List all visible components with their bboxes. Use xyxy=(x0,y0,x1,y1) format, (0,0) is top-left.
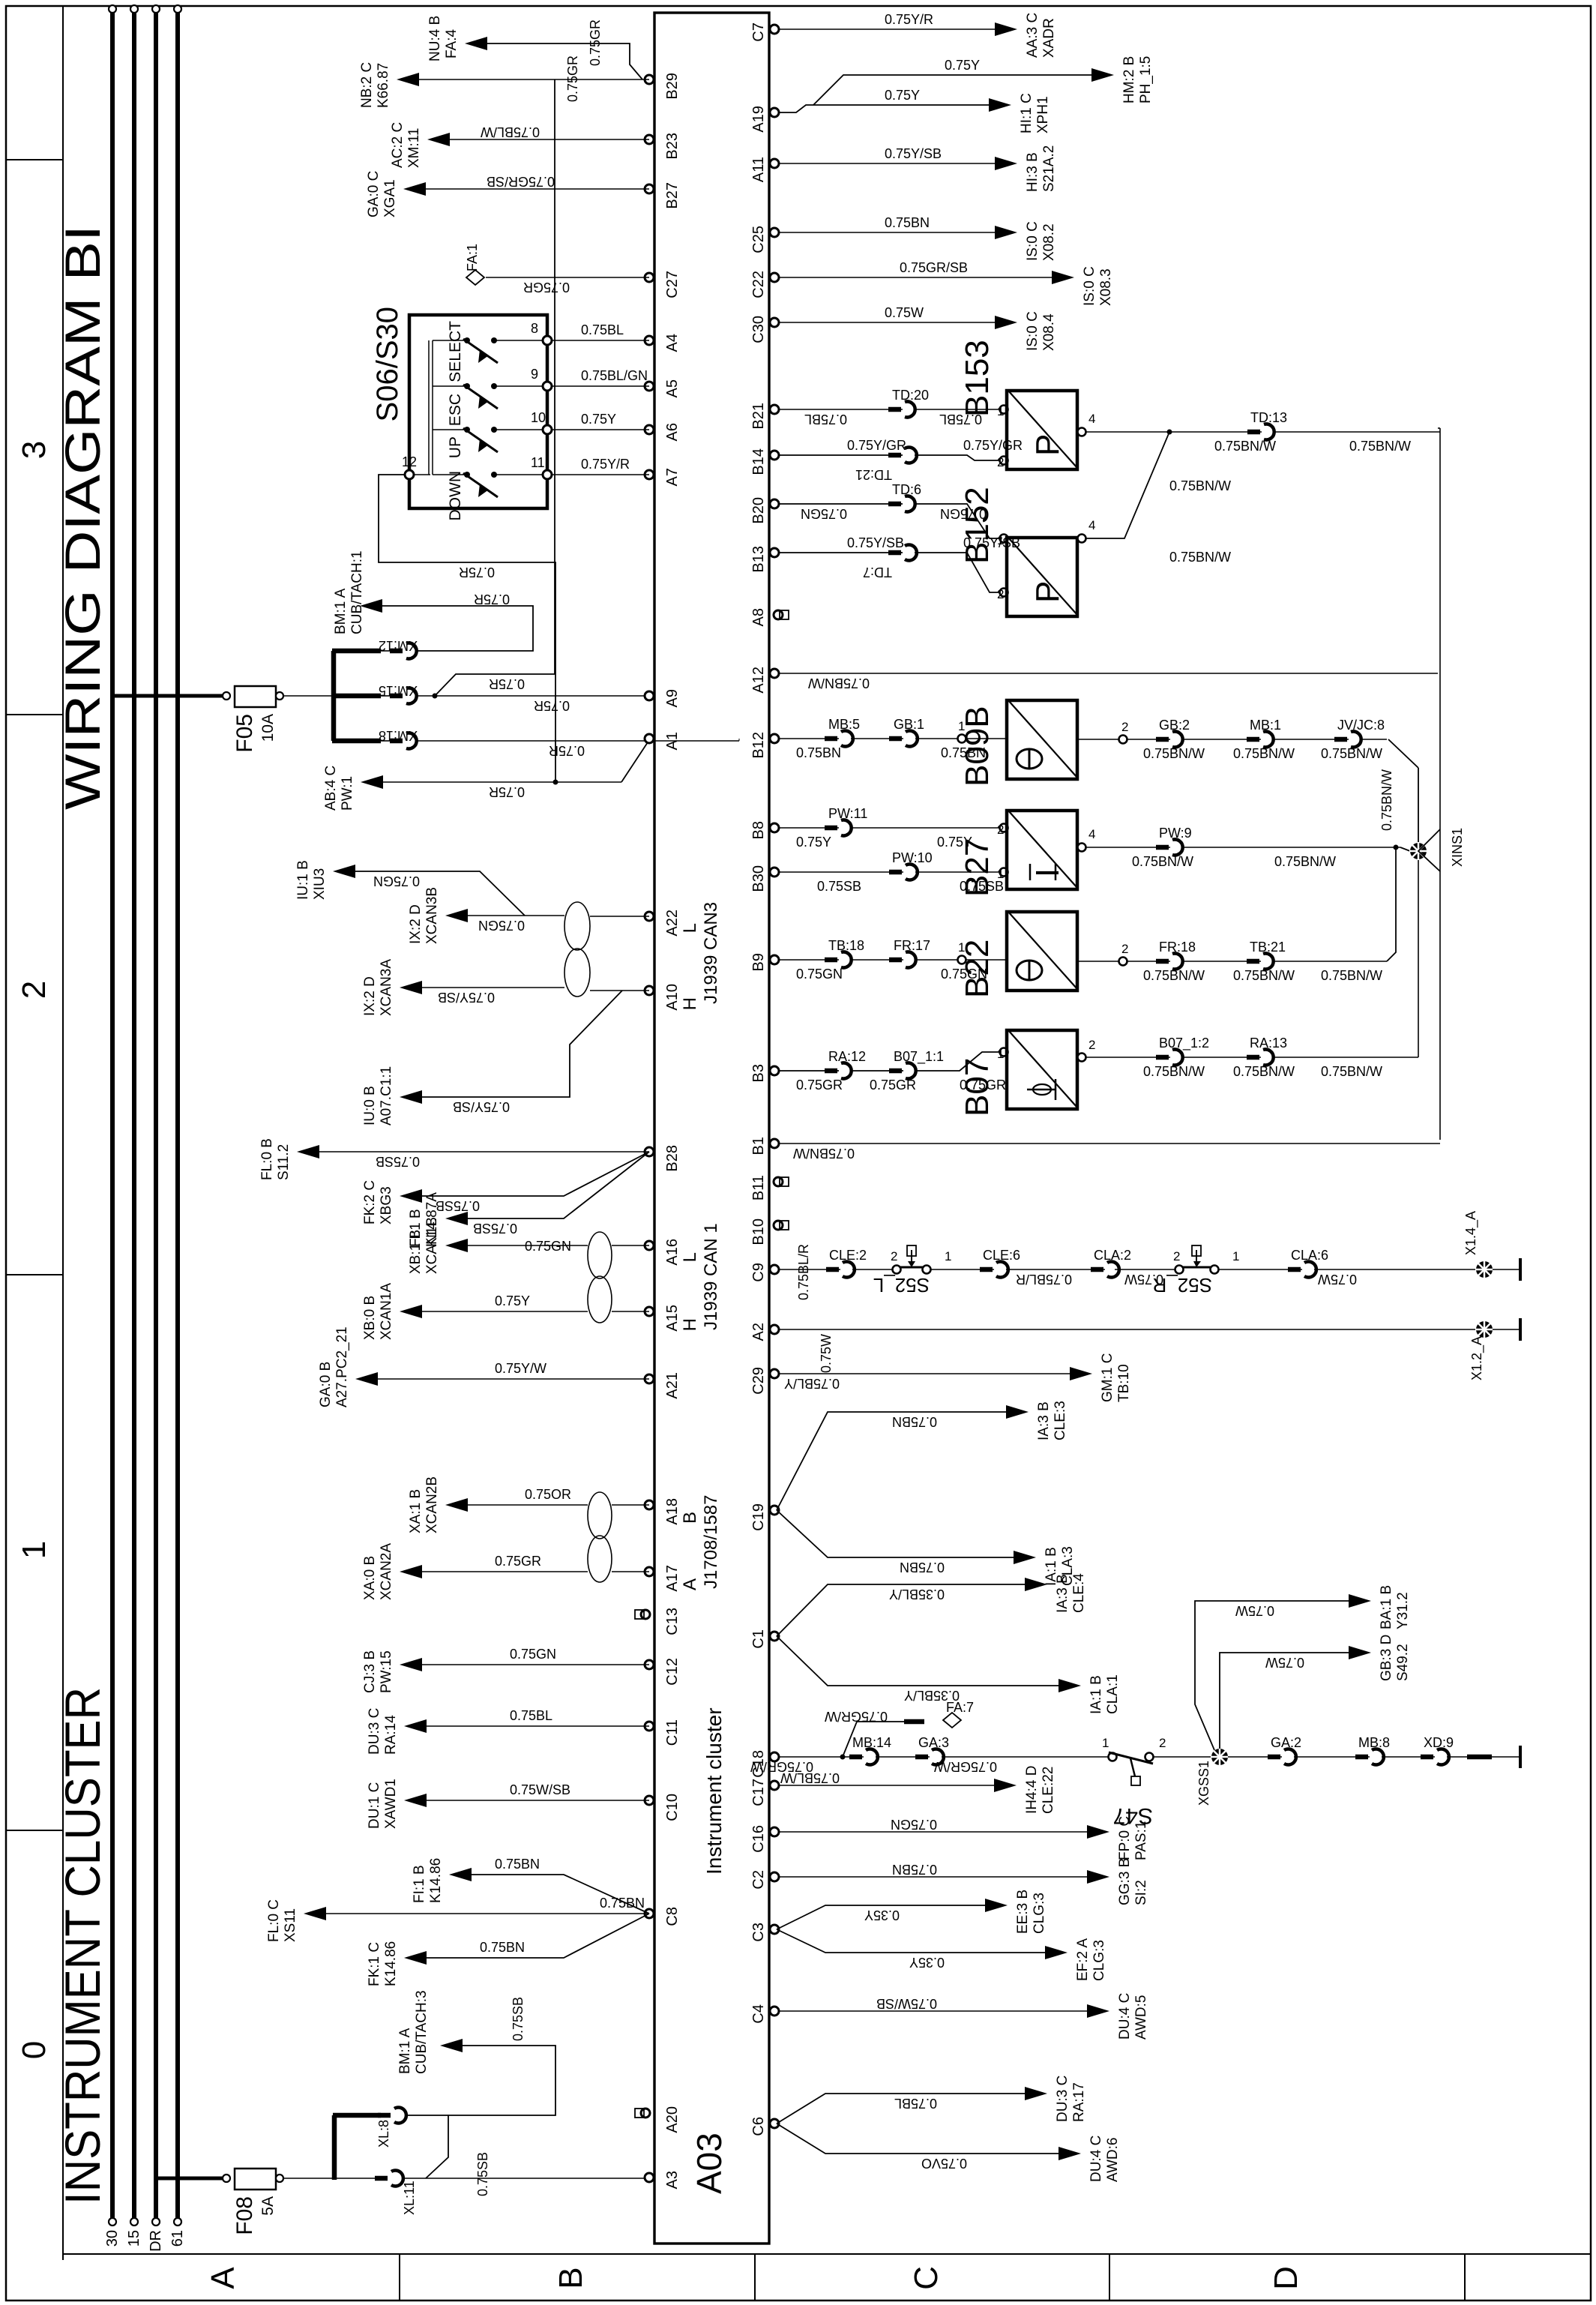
svg-text:1: 1 xyxy=(1232,1249,1239,1263)
svg-text:B11: B11 xyxy=(750,1175,767,1200)
wire C9 to S52_L xyxy=(780,1269,892,1270)
svg-text:Instrument cluster: Instrument cluster xyxy=(702,1707,726,1875)
svg-text:XD:9: XD:9 xyxy=(1424,1735,1454,1750)
svg-text:4: 4 xyxy=(1088,827,1095,841)
svg-text:TB:21: TB:21 xyxy=(1250,940,1286,955)
wire S47 to XGSS1 xyxy=(1154,1756,1211,1758)
svg-text:9: 9 xyxy=(531,367,538,382)
ground junction X1.4_A xyxy=(1476,1261,1493,1278)
pin C10 of A03 (top) xyxy=(645,1796,654,1805)
svg-text:2: 2 xyxy=(1088,1038,1095,1052)
svg-text:TD:21: TD:21 xyxy=(855,467,892,482)
svg-text:0.75BN/W: 0.75BN/W xyxy=(1233,746,1295,761)
svg-text:B20: B20 xyxy=(750,497,767,524)
branch B28 to FI:1 B K14.87A xyxy=(463,1152,649,1218)
svg-text:XGA1: XGA1 xyxy=(382,179,398,217)
svg-text:C17: C17 xyxy=(750,1779,767,1806)
svg-text:C8: C8 xyxy=(664,1907,681,1926)
svg-text:CUB/TACH:3: CUB/TACH:3 xyxy=(414,1990,430,2074)
wire S06/S30 to A03 pin, 0.75Y/R xyxy=(552,474,649,475)
pin 2 of B152 xyxy=(1000,589,1008,597)
svg-text:0.75SB: 0.75SB xyxy=(376,1154,420,1169)
svg-text:GA:2: GA:2 xyxy=(1271,1735,1301,1750)
wire B9 to B22 pin 1 xyxy=(780,959,958,961)
pin C2 of A03 (bottom) xyxy=(770,1872,779,1881)
svg-text:15: 15 xyxy=(126,2230,142,2247)
svg-text:10A: 10A xyxy=(259,714,277,742)
svg-text:12: 12 xyxy=(402,454,417,469)
svg-text:B23: B23 xyxy=(664,133,681,160)
svg-text:1: 1 xyxy=(997,1047,1004,1061)
internal supply bus of S06/S30 xyxy=(414,474,430,475)
switch DOWN of S06/S30 xyxy=(433,474,465,475)
svg-text:H: H xyxy=(680,1318,700,1331)
wire B09B pin 2 to XINS1 xyxy=(1127,739,1387,740)
svg-text:A12: A12 xyxy=(750,667,767,694)
svg-text:0.75Y/SB: 0.75Y/SB xyxy=(847,535,904,550)
pin A15 of A03 (top) xyxy=(645,1307,654,1316)
wire C12 to CJ:3 B PW:15 xyxy=(418,1664,649,1665)
svg-text:XBG3: XBG3 xyxy=(379,1186,394,1224)
svg-text:NB:2 C: NB:2 C xyxy=(359,62,375,108)
svg-text:CJ:3 B: CJ:3 B xyxy=(362,1650,378,1693)
svg-text:1: 1 xyxy=(16,1541,52,1559)
svg-text:2: 2 xyxy=(997,823,1004,837)
svg-text:XGSS1: XGSS1 xyxy=(1196,1761,1211,1806)
svg-text:0.75BL: 0.75BL xyxy=(894,2096,937,2111)
svg-text:0.75SB: 0.75SB xyxy=(475,2152,490,2196)
svg-text:0.75GR/SB: 0.75GR/SB xyxy=(487,174,555,189)
svg-text:X1.4_A: X1.4_A xyxy=(1463,1211,1479,1255)
pin C27 of A03 (top) xyxy=(645,273,654,282)
svg-text:0.75VO: 0.75VO xyxy=(921,2156,967,2171)
svg-text:A21: A21 xyxy=(664,1372,681,1399)
pin 4 of B152 xyxy=(1078,535,1086,543)
pin A4 of A03 (top) xyxy=(645,336,654,345)
pin A8 of A03 (bottom) xyxy=(774,610,783,619)
pin B3 of A03 (bottom) xyxy=(770,1066,779,1075)
svg-text:DOWN: DOWN xyxy=(447,471,464,521)
svg-text:0.75GN: 0.75GN xyxy=(525,1239,571,1254)
svg-text:CLA:2: CLA:2 xyxy=(1094,1248,1131,1263)
svg-text:B8: B8 xyxy=(750,821,767,839)
svg-text:0.75Y/R: 0.75Y/R xyxy=(581,457,630,472)
svg-text:FI:1 B: FI:1 B xyxy=(412,1865,427,1903)
svg-text:0.75BN/W: 0.75BN/W xyxy=(1321,968,1382,983)
pin A22 of A03 (top) xyxy=(645,912,654,921)
svg-text:J1939 CAN3: J1939 CAN3 xyxy=(701,902,721,1004)
wire F05 to XM bracket xyxy=(283,695,334,697)
svg-text:XL:8: XL:8 xyxy=(376,2120,391,2148)
svg-text:0.75BN/W: 0.75BN/W xyxy=(1349,439,1411,454)
svg-text:C: C xyxy=(908,2266,945,2290)
svg-text:0.75Y: 0.75Y xyxy=(945,58,980,73)
svg-text:0.75Y/SB: 0.75Y/SB xyxy=(438,990,495,1005)
svg-text:F08: F08 xyxy=(232,2196,257,2235)
svg-text:0.35Y: 0.35Y xyxy=(909,1955,945,1970)
svg-text:FK:1 C: FK:1 C xyxy=(367,1942,382,1986)
svg-text:AA:3 C: AA:3 C xyxy=(1025,13,1041,58)
svg-text:B07_1:2: B07_1:2 xyxy=(1159,1036,1209,1051)
pin 1 of B09B xyxy=(958,735,966,743)
wire XM:15 to pin A9 xyxy=(418,695,649,697)
pin B30 of A03 (bottom) xyxy=(770,868,779,877)
svg-text:0.75Y/R: 0.75Y/R xyxy=(885,12,933,27)
svg-text:0.75BN: 0.75BN xyxy=(885,215,930,230)
svg-text:0.75R: 0.75R xyxy=(474,592,510,607)
svg-text:B28: B28 xyxy=(664,1145,681,1172)
sensor B09B box xyxy=(1007,700,1077,779)
wire A12 to collector xyxy=(780,673,1438,674)
svg-text:0.75GN: 0.75GN xyxy=(891,1817,937,1832)
wire B14 to B153 pin 2 xyxy=(780,455,1002,460)
switch block S06/S30 box xyxy=(409,315,547,508)
connector XL:8 xyxy=(392,2114,404,2117)
svg-text:IA:3 B: IA:3 B xyxy=(1055,1574,1070,1613)
svg-text:0.75W: 0.75W xyxy=(885,305,924,320)
diamond FA:7 option flag xyxy=(943,1713,961,1728)
wire A15 to XCAN1A xyxy=(612,1311,649,1312)
svg-text:IS:0 C: IS:0 C xyxy=(1025,221,1041,261)
svg-text:0.75GR: 0.75GR xyxy=(523,280,570,295)
svg-text:SI:2: SI:2 xyxy=(1133,1880,1149,1905)
svg-text:S21A.2: S21A.2 xyxy=(1041,145,1057,192)
wire C4 to AWD:5 xyxy=(780,2010,1093,2012)
svg-text:BA:1 B: BA:1 B xyxy=(1379,1585,1394,1629)
svg-text:0.75R: 0.75R xyxy=(489,676,525,691)
pin B10 of A03 (bottom) xyxy=(774,1221,783,1230)
svg-text:0.75BN/W: 0.75BN/W xyxy=(793,1146,855,1161)
svg-text:S11.2: S11.2 xyxy=(276,1144,292,1180)
wire B13 to B152 pin 2 xyxy=(780,553,1002,592)
diagonal link XL11 line to XL8 line xyxy=(426,2115,448,2178)
power bus DR xyxy=(154,9,158,2222)
pin A9 of A03 (top) xyxy=(645,691,654,700)
svg-text:L: L xyxy=(680,923,700,933)
pin B14 of A03 (bottom) xyxy=(770,451,779,460)
wire C29 to GM:1 C TB:10 xyxy=(780,1373,1074,1374)
svg-text:0.75Y: 0.75Y xyxy=(495,1293,530,1308)
svg-text:XL:11: XL:11 xyxy=(402,2181,417,2215)
svg-text:JV/JC:8: JV/JC:8 xyxy=(1337,718,1385,733)
svg-text:B14: B14 xyxy=(750,448,767,475)
svg-text:XM:12: XM:12 xyxy=(379,638,418,653)
pin C3 of A03 (bottom) xyxy=(770,1925,779,1934)
svg-text:XM:11: XM:11 xyxy=(406,127,422,168)
svg-text:P: P xyxy=(1029,581,1066,603)
branch C8 to FI:1 B K14.86 xyxy=(467,1875,649,1914)
svg-text:PW:15: PW:15 xyxy=(379,1650,394,1693)
svg-text:C12: C12 xyxy=(664,1658,681,1686)
connector XM:18 xyxy=(381,740,393,742)
pin C18 of A03 (bottom) xyxy=(770,1752,779,1761)
branch A19 to HM:2 B PH_1:5 xyxy=(813,75,1096,105)
svg-text:1: 1 xyxy=(945,1249,951,1263)
wire B3 to B07 pin 1 xyxy=(780,1052,1002,1071)
svg-text:C3: C3 xyxy=(750,1923,767,1942)
wire A17 to XCAN2A xyxy=(612,1571,649,1572)
svg-text:PAS:1: PAS:1 xyxy=(1133,1821,1149,1860)
svg-text:0.75Y/W: 0.75Y/W xyxy=(495,1361,546,1376)
wire C7 to XADR xyxy=(780,28,1001,30)
svg-text:0.75BN/W: 0.75BN/W xyxy=(1169,478,1231,493)
svg-text:FA:1: FA:1 xyxy=(465,244,480,271)
wire C17 to CLE:22 xyxy=(780,1785,1000,1786)
pin C11 of A03 (top) xyxy=(645,1722,654,1731)
svg-text:A3: A3 xyxy=(664,2171,681,2189)
svg-text:0.75GN: 0.75GN xyxy=(373,874,420,889)
svg-text:FL:0 C: FL:0 C xyxy=(266,1899,282,1942)
branch C1 to IA:1 B CLA:1 xyxy=(777,1636,1063,1686)
wire C18 down xyxy=(780,1756,1108,1758)
svg-text:XM:18: XM:18 xyxy=(379,728,418,743)
pin 2 of B07 xyxy=(1078,1054,1086,1062)
svg-text:0.75BN/W: 0.75BN/W xyxy=(1143,746,1205,761)
svg-text:0.75BN/W: 0.75BN/W xyxy=(1214,439,1276,454)
svg-text:2: 2 xyxy=(997,587,1004,601)
wire B1 to collector xyxy=(780,1143,1440,1144)
svg-text:FP:0 C: FP:0 C xyxy=(1117,1816,1133,1860)
wire B153 pin4 / B152 pin4 to TD:13 xyxy=(1086,431,1440,433)
wire A22 to XCAN3B xyxy=(590,916,649,917)
wire C1 to IA:3 B CLE:4 xyxy=(777,1584,1029,1636)
pin C30 of A03 (bottom) xyxy=(770,318,779,327)
svg-text:0.75GR: 0.75GR xyxy=(796,1078,843,1093)
pin 2 of B22 xyxy=(1077,961,1119,962)
svg-text:10: 10 xyxy=(531,410,546,425)
svg-text:B3: B3 xyxy=(750,1064,767,1082)
svg-text:2: 2 xyxy=(997,455,1004,469)
svg-text:0.75BL/W: 0.75BL/W xyxy=(780,1770,840,1785)
connector XM:12 xyxy=(381,650,393,652)
wire S06/S30 pin 12 to A1 node xyxy=(379,475,555,782)
svg-text:0.75BN/W: 0.75BN/W xyxy=(1321,1064,1382,1079)
collector wire BN/W xyxy=(1439,428,1441,1140)
svg-text:0.75BN/W: 0.75BN/W xyxy=(1321,746,1382,761)
svg-text:A11: A11 xyxy=(750,157,767,182)
junction XINS1 xyxy=(1410,843,1427,859)
sensor B07 box xyxy=(1007,1030,1077,1109)
svg-text:0.75BN/W: 0.75BN/W xyxy=(1233,968,1295,983)
pin 4 of B153 xyxy=(1078,428,1086,436)
svg-text:30: 30 xyxy=(104,2230,121,2247)
svg-text:DU:4 C: DU:4 C xyxy=(1088,2136,1104,2182)
svg-text:INSTRUMENT CLUSTER: INSTRUMENT CLUSTER xyxy=(55,1687,110,2205)
wire A2 to ground X1.2_A xyxy=(780,1329,1476,1330)
svg-text:2: 2 xyxy=(1121,942,1128,956)
branch B29 to NU:4 B FA:4 xyxy=(483,43,642,79)
svg-text:0.75R: 0.75R xyxy=(534,698,570,713)
svg-text:2: 2 xyxy=(1121,720,1128,734)
svg-text:A03: A03 xyxy=(690,2133,729,2194)
thick distribution bracket XM xyxy=(331,651,337,741)
svg-text:0.75W: 0.75W xyxy=(1318,1272,1357,1287)
pin A1 of A03 (top) xyxy=(645,734,654,743)
svg-text:UP: UP xyxy=(447,436,464,458)
pin C1 of A03 (bottom) xyxy=(770,1632,779,1641)
pin 1 of B07 xyxy=(1000,1048,1008,1057)
svg-text:A9: A9 xyxy=(664,689,681,707)
svg-text:MB:8: MB:8 xyxy=(1358,1735,1390,1750)
svg-text:PW:10: PW:10 xyxy=(892,850,933,865)
pin B20 of A03 (bottom) xyxy=(770,499,779,508)
svg-text:0.75BN: 0.75BN xyxy=(892,1862,937,1877)
svg-text:C22: C22 xyxy=(750,271,767,298)
svg-text:A10: A10 xyxy=(664,984,681,1011)
svg-text:BM:1 A: BM:1 A xyxy=(397,2028,413,2074)
svg-text:IU:1 B: IU:1 B xyxy=(295,860,311,900)
svg-text:RA:14: RA:14 xyxy=(383,1715,399,1755)
svg-text:X08.4: X08.4 xyxy=(1041,313,1057,351)
pin 1 of B22 xyxy=(958,956,966,964)
svg-text:L: L xyxy=(680,1252,700,1262)
svg-text:FK:2 C: FK:2 C xyxy=(362,1180,378,1224)
pin C19 of A03 (bottom) xyxy=(770,1506,779,1515)
wire C2 to SI:2 xyxy=(780,1876,1093,1878)
svg-text:0.75BN/W: 0.75BN/W xyxy=(1169,550,1231,565)
pin B28 of A03 (top) xyxy=(645,1147,654,1156)
svg-text:0.75W/SB: 0.75W/SB xyxy=(510,1782,570,1797)
svg-text:B30: B30 xyxy=(750,865,767,892)
wire TD:13 corner to collector xyxy=(1438,427,1440,429)
power bus 30 xyxy=(110,9,115,2222)
power bus 15 xyxy=(132,9,136,2222)
svg-text:HM:2 B: HM:2 B xyxy=(1121,56,1137,103)
svg-text:0.75Y: 0.75Y xyxy=(885,88,920,103)
svg-text:A20: A20 xyxy=(664,2106,681,2133)
svg-text:XCAN1B: XCAN1B xyxy=(424,1217,440,1274)
pin A2 of A03 (bottom) xyxy=(770,1325,779,1334)
pin 12 of S06/S30 xyxy=(405,470,414,479)
wire B23 to XM:11 xyxy=(444,139,649,140)
svg-text:IS:0 C: IS:0 C xyxy=(1082,266,1097,306)
switch SELECT of S06/S30 xyxy=(433,340,465,341)
svg-text:A: A xyxy=(680,1578,700,1590)
wire A10 to XCAN3A xyxy=(590,990,649,991)
pin A3 of A03 (top) xyxy=(645,2173,654,2182)
svg-text:C30: C30 xyxy=(750,316,767,343)
svg-text:S52_L: S52_L xyxy=(873,1274,930,1296)
svg-text:0.75GR/W: 0.75GR/W xyxy=(825,1709,888,1724)
svg-text:GA:0 C: GA:0 C xyxy=(366,171,382,217)
stub branch to FA:7 xyxy=(843,1722,904,1757)
svg-text:IS:0 C: IS:0 C xyxy=(1025,311,1041,351)
svg-text:MB:14: MB:14 xyxy=(852,1735,891,1750)
wire A19 to HI:1 C XPH1 xyxy=(780,105,993,112)
pin 2 of B153 xyxy=(1000,457,1008,465)
wire F08 down to XL:11 xyxy=(283,2178,334,2179)
svg-text:0.75BN/W: 0.75BN/W xyxy=(1379,769,1394,831)
svg-text:C19: C19 xyxy=(750,1503,767,1531)
svg-text:XCAN1A: XCAN1A xyxy=(379,1283,394,1340)
left ruler strip xyxy=(63,2253,1591,2255)
svg-text:0.75GR: 0.75GR xyxy=(588,19,603,66)
svg-text:B27: B27 xyxy=(664,182,681,209)
svg-text:B152: B152 xyxy=(959,487,996,564)
pin A11 of A03 (bottom) xyxy=(770,159,779,168)
wire XL:11 to pin A3 xyxy=(403,2178,649,2179)
svg-text:B13: B13 xyxy=(750,546,767,573)
svg-text:B10: B10 xyxy=(750,1218,767,1245)
branch A10 to IU:0 B A07.C1:1 xyxy=(418,991,622,1097)
svg-text:C2: C2 xyxy=(750,1870,767,1890)
svg-text:A7: A7 xyxy=(664,468,681,486)
svg-text:0.75Y/SB: 0.75Y/SB xyxy=(885,146,942,161)
svg-text:IX:2 D: IX:2 D xyxy=(408,904,424,944)
svg-text:TB:10: TB:10 xyxy=(1116,1364,1132,1402)
svg-text:2: 2 xyxy=(1159,1736,1166,1750)
svg-text:I: I xyxy=(1029,868,1066,877)
svg-text:XINS1: XINS1 xyxy=(1450,828,1465,867)
svg-text:TD:13: TD:13 xyxy=(1250,410,1287,425)
svg-text:0.75BN/W: 0.75BN/W xyxy=(1143,1064,1205,1079)
svg-text:0.75BL: 0.75BL xyxy=(804,412,847,427)
svg-text:PW:1: PW:1 xyxy=(340,776,355,811)
svg-text:0.75W: 0.75W xyxy=(1124,1272,1163,1287)
svg-text:B153: B153 xyxy=(959,340,996,417)
svg-text:F05: F05 xyxy=(232,714,257,753)
svg-text:XCAN2A: XCAN2A xyxy=(379,1543,394,1600)
svg-text:0.75W: 0.75W xyxy=(819,1334,834,1373)
svg-text:H: H xyxy=(680,997,700,1010)
svg-text:XB:0 B: XB:0 B xyxy=(362,1296,378,1340)
svg-text:DU:1 C: DU:1 C xyxy=(367,1782,382,1829)
branch C3 to EF:2 A CLG:3 xyxy=(777,1929,1050,1953)
ECU A03 Instrument cluster box xyxy=(654,13,769,2244)
twisted pair symbol CAN2 xyxy=(588,1536,612,1582)
svg-text:A1: A1 xyxy=(664,732,681,750)
svg-text:XPH1: XPH1 xyxy=(1035,96,1051,133)
pin B13 of A03 (bottom) xyxy=(770,548,779,557)
branch B28 to FK:2 C XBG3 xyxy=(418,1152,649,1196)
svg-text:RA:13: RA:13 xyxy=(1250,1036,1287,1051)
pin A16 of A03 (top) xyxy=(645,1241,654,1250)
svg-text:0: 0 xyxy=(16,2041,52,2059)
wire C3 to EE:3 B CLG:3 xyxy=(777,1905,990,1929)
svg-text:A27.PC2_21: A27.PC2_21 xyxy=(334,1326,350,1407)
svg-text:B09B: B09B xyxy=(959,706,996,787)
svg-text:C6: C6 xyxy=(750,2117,767,2136)
svg-text:J1939 CAN 1: J1939 CAN 1 xyxy=(701,1223,721,1330)
pin C12 of A03 (top) xyxy=(645,1660,654,1669)
svg-text:CLG:3: CLG:3 xyxy=(1032,1893,1047,1934)
svg-text:0.75SB: 0.75SB xyxy=(511,1997,526,2041)
svg-text:PW:11: PW:11 xyxy=(828,806,867,821)
svg-text:P: P xyxy=(1029,434,1066,456)
svg-text:XADR: XADR xyxy=(1041,18,1057,58)
thick branch to XL:8 xyxy=(332,2115,337,2180)
svg-text:CLE:4: CLE:4 xyxy=(1071,1573,1087,1613)
ground symbol XD:9 xyxy=(1519,1746,1522,1768)
svg-text:5A: 5A xyxy=(259,2196,277,2216)
svg-text:0.75SB: 0.75SB xyxy=(436,1198,480,1213)
connector XM:15 xyxy=(381,695,393,697)
svg-text:CLG:3: CLG:3 xyxy=(1091,1940,1107,1981)
svg-text:0.75Y/SB: 0.75Y/SB xyxy=(453,1099,510,1114)
svg-text:C29: C29 xyxy=(750,1367,767,1395)
svg-text:B29: B29 xyxy=(664,73,681,100)
wire XM:12 to BM:1 A CUB/TACH:1 xyxy=(379,606,533,651)
twisted pair symbol CAN3 xyxy=(564,949,590,997)
pin C22 of A03 (bottom) xyxy=(770,273,779,282)
svg-text:IA:1 B: IA:1 B xyxy=(1088,1675,1104,1714)
pin B8 of A03 (bottom) xyxy=(770,823,779,832)
svg-text:A07.C1:1: A07.C1:1 xyxy=(379,1066,394,1126)
collector wire to XINS1 diagonals xyxy=(1418,829,1440,871)
pin C6 of A03 (bottom) xyxy=(770,2119,779,2128)
pin B11 of A03 (bottom) xyxy=(774,1177,783,1186)
svg-text:GB:3 D: GB:3 D xyxy=(1379,1635,1394,1681)
